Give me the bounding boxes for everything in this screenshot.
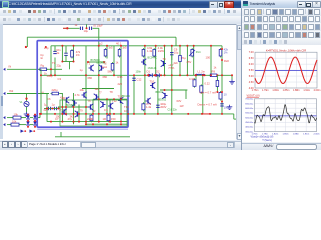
svg-text:1.91m: 1.91m — [303, 89, 310, 92]
svg-text:6.50: 6.50 — [249, 57, 254, 60]
wire bl wire d1 to d2 — [30, 117, 33, 119]
node rail y46 #1 — [73, 45, 75, 47]
wire vert x107 upper — [106, 46, 108, 59]
plot2 x-axis labels — [251, 133, 319, 135]
transient title bar — [241, 0, 321, 9]
node rail y114 #21 — [221, 113, 223, 115]
wire bl wire r2 right — [20, 124, 27, 126]
transient toolbars — [242, 8, 321, 17]
node rail y114 #4 — [73, 113, 75, 115]
node rail y121 #4 — [85, 121, 87, 123]
diode D5 — [33, 115, 37, 119]
node rail y114 #9 — [106, 113, 108, 115]
wire vert x157 — [157, 75, 159, 114]
plot2 baseline (blue) — [255, 115, 317, 117]
wire vert x86 — [85, 46, 87, 124]
node rail y121 #1 — [61, 121, 63, 123]
resistor R x180 — [179, 54, 182, 63]
wire vert x41 — [40, 69, 42, 114]
schematic canvas — [0, 24, 236, 140]
svg-text:1.79m: 1.79m — [262, 89, 269, 92]
wire red segment out — [202, 113, 210, 115]
transistor T1 — [89, 65, 94, 71]
node rail y124 #2 — [106, 123, 108, 125]
node top left net — [25, 46, 27, 48]
wire vert x62 lower — [61, 93, 63, 122]
node x47 mid — [46, 108, 48, 110]
node rail y114 #7 — [92, 113, 94, 115]
resistor R col1 — [142, 48, 145, 58]
node bar y99 #3 — [120, 98, 122, 100]
plot1 grid — [255, 52, 317, 88]
wire vert x79 lower — [78, 105, 80, 122]
capacitor C5 pair b — [54, 107, 56, 110]
wire bl wire r1 right — [22, 117, 27, 119]
wire vert x155 — [155, 46, 157, 76]
resistor R bl1 — [12, 116, 23, 119]
transistor T3 — [82, 92, 87, 98]
capacitor C4 pair a — [48, 107, 50, 110]
node bar y107 #2 — [73, 106, 75, 108]
svg-text:1.82m: 1.82m — [272, 89, 279, 92]
resistor R x217 — [216, 79, 219, 88]
wire vert x110 — [109, 99, 111, 121]
ground GND zobel — [227, 105, 233, 110]
node rail y75 #7 — [155, 74, 157, 76]
inductor L1 — [196, 74, 205, 75]
svg-text:4.50: 4.50 — [249, 81, 254, 84]
transistor T10 — [100, 101, 105, 107]
wire C9 leads — [171, 55, 173, 60]
node rail y46 #9 — [186, 45, 188, 47]
node rail y75 #15 — [231, 74, 233, 76]
svg-text:1.76m: 1.76m — [252, 89, 259, 92]
node rail y75 #1 — [54, 74, 56, 76]
node rail y46 #10 — [193, 45, 195, 47]
node rail y114 #1 — [54, 113, 56, 115]
node rail y114 #11 — [113, 113, 115, 115]
wire vert x66 lower — [65, 99, 67, 114]
node rail y75 #12 — [202, 74, 204, 76]
wire join bar y61 — [62, 61, 73, 63]
wire Chang top — [54, 46, 56, 52]
resistor R 42k — [219, 48, 222, 58]
svg-text:6.00: 6.00 — [249, 63, 254, 66]
wire input branch drop — [98, 28, 100, 46]
capacitor C9 — [170, 53, 173, 55]
node cap pair a — [46, 108, 48, 110]
wire bl wire r1 left — [7, 117, 13, 119]
wire cap pair wire — [44, 108, 60, 110]
plot2 frame — [255, 99, 317, 132]
node rail y75 #11 — [195, 74, 197, 76]
transistor T4 — [94, 94, 99, 100]
svg-text:1.91m: 1.91m — [303, 133, 309, 135]
wire vert x164 — [164, 46, 166, 76]
wire page bottom wire — [55, 136, 130, 138]
wire source top wire — [26, 94, 28, 102]
transistor Q2 right — [161, 60, 166, 66]
node right rail c — [221, 91, 223, 93]
resistor Re2 — [200, 84, 203, 94]
input stub — [63, 27, 66, 29]
wire input branch b — [93, 27, 99, 29]
resistor R col1 low — [142, 102, 145, 111]
wire vert x107 lower — [106, 99, 108, 114]
node rail y114 #5 — [78, 113, 80, 115]
wire bl wire to rail — [37, 117, 40, 119]
wire lower rail B — [86, 123, 128, 125]
node mbr a — [164, 89, 166, 91]
wire bl diode col x28 — [27, 114, 29, 115]
wire bl wire d lower — [30, 124, 33, 126]
plot2 y-axis labels — [245, 99, 254, 134]
node rail y114 #17 — [171, 113, 173, 115]
node cap pair b — [52, 108, 54, 110]
toolbar row 1 — [0, 8, 243, 17]
plot2 noise trace — [255, 105, 317, 123]
node rail y114 #3 — [65, 113, 67, 115]
wire right rail — [221, 46, 223, 114]
resistor Re1 — [193, 78, 196, 88]
transistor T9 — [88, 104, 93, 110]
node rail y46 #7 — [164, 45, 166, 47]
node V1 top — [25, 98, 27, 100]
node rail y46 #3 — [106, 45, 108, 47]
node x217 bot — [216, 91, 218, 93]
wire Cin top lead — [65, 46, 67, 53]
right scrollbar of schematic — [236, 24, 242, 139]
node rail y114 #18 — [187, 113, 189, 115]
node x180 top — [179, 45, 181, 47]
svg-text:K=RT\001_NeuIv_10kHz-dirk.CIR: K=RT\001_NeuIv_10kHz-dirk.CIR — [266, 48, 306, 52]
wire vert x98 — [98, 46, 100, 122]
plot1 y-axis labels — [249, 51, 254, 90]
svg-text:5.00: 5.00 — [249, 75, 254, 78]
wire top rail drop — [175, 37, 177, 46]
node rail y121 #6 — [109, 121, 111, 123]
resistor R bl2 — [10, 123, 21, 126]
transistor T8 — [75, 111, 80, 117]
node bar y99 #0 — [98, 98, 100, 100]
resistor R low x110 — [107, 114, 110, 123]
resistor R out — [209, 74, 219, 77]
wire bottom rail — [40, 113, 234, 115]
node rail y121 #7 — [120, 121, 122, 123]
wire vert x114 — [113, 46, 115, 76]
ground GND V1 — [24, 112, 30, 117]
capacitor C zobel — [220, 104, 223, 106]
misc symbol bl2 — [30, 130, 33, 133]
plot1 x-axis labels — [252, 89, 321, 92]
node rail y121 #2 — [73, 121, 75, 123]
wire vert x186 low — [185, 90, 187, 99]
node rail y46 #5 — [144, 45, 146, 47]
node right rail d — [221, 101, 223, 103]
node bar y99 #1 — [106, 98, 108, 100]
node cap pair c — [58, 108, 60, 110]
node rail y46 #8 — [171, 45, 173, 47]
node bl sym dot1 — [24, 130, 26, 132]
resistor R zobel — [219, 91, 222, 101]
transistor T6 — [72, 100, 77, 106]
wire input branch riser — [86, 24, 88, 28]
wire vert x144 — [144, 46, 146, 114]
wire bl wire r2 left — [7, 124, 11, 126]
diode D1 — [149, 73, 153, 77]
plot1 legend underline — [247, 96, 260, 98]
svg-text:550.00u: 550.00u — [245, 113, 254, 115]
node rail y75 #6 — [144, 74, 146, 76]
wire vert x217 — [216, 75, 218, 92]
wire vert x55 — [54, 58, 56, 76]
svg-text:2.00m: 2.00m — [313, 133, 319, 135]
plot1 baseline trace (blue) — [255, 70, 317, 72]
node d col d — [34, 114, 36, 116]
svg-text:1.85m: 1.85m — [283, 89, 290, 92]
svg-text:400.00u: 400.00u — [245, 127, 254, 129]
wire mirror bar y62 — [88, 61, 104, 63]
node rail y46 #11 — [210, 45, 212, 47]
node rail y75 #8 — [164, 74, 166, 76]
poti arrow — [189, 50, 195, 56]
node rail y124 #3 — [120, 123, 122, 125]
wire join drop — [69, 62, 71, 70]
wire vert x47 — [46, 94, 48, 122]
transistor T2 — [99, 65, 104, 71]
svg-text:1.88m: 1.88m — [293, 89, 300, 92]
resistor Rg input — [39, 68, 49, 71]
node join b — [73, 61, 75, 63]
node rail y46 #4 — [120, 45, 122, 47]
transistor T11 — [108, 103, 113, 109]
node mirror b — [103, 61, 105, 63]
wire vert x211 — [210, 46, 212, 76]
ground GND out — [229, 80, 235, 85]
selection box — [37, 41, 128, 128]
node rail y114 #16 — [157, 113, 159, 115]
resistor Poti — [191, 48, 194, 58]
resistor R lower-left — [51, 92, 61, 95]
node join a — [61, 61, 63, 63]
node input terminal — [66, 27, 68, 29]
resistor R5 x121 — [118, 48, 121, 58]
node rail y46 #0 — [61, 45, 63, 47]
node x41 top — [40, 74, 42, 76]
node rail y114 #13 — [127, 113, 129, 115]
transistor Q1 right — [141, 59, 146, 65]
node rail y75 #2 — [85, 74, 87, 76]
svg-text:2.00m: 2.00m — [314, 89, 321, 92]
node rail y114 #8 — [98, 113, 100, 115]
node rail y121 #5 — [98, 121, 100, 123]
terminal IN2 arrow — [3, 92, 5, 95]
plot2 grid — [255, 99, 317, 132]
node rail y75 #0 — [50, 74, 52, 76]
plot1 sine trace V(OUT) — [255, 57, 317, 83]
node rail y75 #5 — [133, 74, 135, 76]
transistor Q4 driver — [162, 92, 167, 98]
wire vert x73 lower — [73, 93, 75, 124]
node rail y114 #6 — [85, 113, 87, 115]
node d col f — [34, 126, 36, 128]
resistor Rin — [71, 49, 74, 59]
resistor R low x93 — [90, 114, 93, 123]
wire output rail — [40, 74, 232, 76]
wire main rail — [51, 45, 222, 47]
node out rail dev #5 — [216, 74, 218, 76]
transistor T7 — [62, 109, 67, 115]
node bar y99 #2 — [113, 98, 115, 100]
wire rail drop x51 — [50, 46, 52, 76]
wire input wire IN2 — [7, 93, 49, 95]
node in junction — [50, 68, 52, 70]
node rail y75 #9 — [171, 74, 173, 76]
plot area background — [242, 45, 321, 142]
terminal bl arrow2 — [3, 123, 5, 126]
node net x45 — [45, 46, 47, 48]
terminal bl arrow1 — [3, 116, 5, 119]
capacitor C hang — [53, 51, 56, 53]
node d col c — [27, 126, 29, 128]
node rail y114 #20 — [209, 113, 211, 115]
wire vert x93 — [92, 99, 94, 114]
wire mid bar y88 — [82, 88, 114, 90]
resistor R tail x114 — [111, 62, 114, 72]
terminal IN arrow — [3, 68, 5, 71]
wire vert x62 upper — [61, 46, 63, 62]
transistor T5 — [64, 97, 69, 103]
node bar y107 #1 — [65, 106, 67, 108]
toolbar row 2 — [0, 16, 243, 25]
svg-text:7.00: 7.00 — [249, 51, 254, 54]
transistor T12 — [118, 97, 123, 103]
svg-text:650.00u: 650.00u — [245, 103, 254, 105]
node out rail dev #2 — [160, 74, 162, 76]
node d col b — [27, 120, 29, 122]
wire bl rail drop — [39, 114, 41, 118]
wire vert x187 — [186, 46, 188, 76]
wire vert x193 — [193, 46, 195, 76]
main title bar — [0, 0, 241, 8]
left window strip — [0, 24, 3, 139]
svg-text:600.00u: 600.00u — [245, 108, 254, 110]
svg-text:V(OUT) (V): V(OUT) (V) — [247, 93, 260, 97]
node rail y114 #2 — [61, 113, 63, 115]
node out rail dev #3 — [195, 74, 197, 76]
node x180 bot — [179, 74, 181, 76]
transistor Q5 out — [146, 98, 151, 104]
node rail y114 #15 — [144, 113, 146, 115]
wire vert x171 — [171, 46, 173, 114]
wire bottom rail drop — [233, 114, 235, 119]
plot1 frame — [255, 52, 317, 88]
resistor R4 x107 — [104, 48, 107, 58]
wire bl diode col x35 — [34, 114, 36, 115]
wire vert x196 — [195, 75, 197, 79]
capacitor C1 input — [80, 27, 82, 30]
node rail y121 #0 — [50, 121, 52, 123]
node diode D1 a — [148, 74, 150, 76]
wire mid bar y107 — [58, 106, 90, 108]
svg-text:1.88m: 1.88m — [293, 133, 299, 135]
node out rail dev #0 — [147, 74, 149, 76]
node rail y46 #2 — [98, 45, 100, 47]
node rail y75 #10 — [186, 74, 188, 76]
selection box echo line — [37, 128, 128, 130]
wire input branch a — [63, 27, 80, 29]
node rail y75 #13 — [210, 74, 212, 76]
bottom tab bar — [0, 141, 241, 149]
node right rail b — [221, 59, 223, 61]
wire bottom rail exit — [234, 118, 236, 120]
node out rail dev #4 — [204, 74, 206, 76]
node bl sym dot2 — [33, 130, 35, 132]
wire lower rail A — [47, 121, 128, 123]
svg-text:1.85m: 1.85m — [282, 133, 288, 135]
node rail y114 #14 — [133, 113, 135, 115]
window buttons — [209, 1, 218, 9]
transient bottom bar — [242, 143, 321, 152]
node bar y107 #3 — [85, 106, 87, 108]
wire input wire IN — [7, 68, 62, 70]
svg-text:5.50: 5.50 — [249, 69, 254, 72]
wire source bottom wire — [26, 107, 28, 113]
node rail y114 #0 — [39, 113, 41, 115]
wire vert x134 — [133, 75, 135, 114]
diode D4 — [26, 121, 30, 125]
wire mid bar right — [160, 89, 187, 91]
diode D6 — [33, 121, 37, 125]
node rail y75 #14 — [221, 74, 223, 76]
node out rail dev #1 — [154, 74, 156, 76]
wire top rail — [27, 36, 176, 38]
wire vert x121 — [120, 46, 122, 122]
node rail y75 #3 — [98, 74, 100, 76]
wire top rail left drop — [26, 37, 28, 47]
node rail y46 #6 — [155, 45, 157, 47]
node d col a — [27, 114, 29, 116]
node rail y121 #3 — [78, 121, 80, 123]
wire output ground stub — [231, 75, 233, 79]
svg-text:700.00u: 700.00u — [245, 99, 254, 101]
wire mid bar y99 — [93, 98, 128, 100]
node bar y107 #0 — [61, 106, 63, 108]
svg-text:V(out)+ d(V(out)) (V): V(out)+ d(V(out)) (V) — [251, 136, 274, 139]
node right rail a — [221, 48, 223, 50]
svg-text:450.00u: 450.00u — [245, 122, 254, 124]
misc symbol bl1 — [21, 130, 24, 133]
diode D2 — [156, 73, 160, 77]
capacitor C out col — [132, 78, 135, 80]
capacitor C big — [156, 105, 159, 107]
capacitor Cin — [64, 53, 67, 55]
wire page bottom riser — [60, 132, 62, 137]
node rail y114 #10 — [109, 113, 111, 115]
node rail y124 #0 — [85, 123, 87, 125]
wire vert x202 — [202, 75, 204, 114]
node x41 bot — [40, 113, 42, 115]
node branch mid — [86, 27, 88, 29]
node d col e — [34, 120, 36, 122]
source V1 — [24, 101, 29, 106]
wire IN2 cont — [60, 93, 62, 95]
node rail y124 #1 — [92, 123, 94, 125]
node rail y75 #4 — [113, 74, 115, 76]
diode D3 — [26, 115, 30, 119]
resistor R col2 — [153, 48, 156, 58]
capacitor C2 input — [89, 27, 91, 30]
